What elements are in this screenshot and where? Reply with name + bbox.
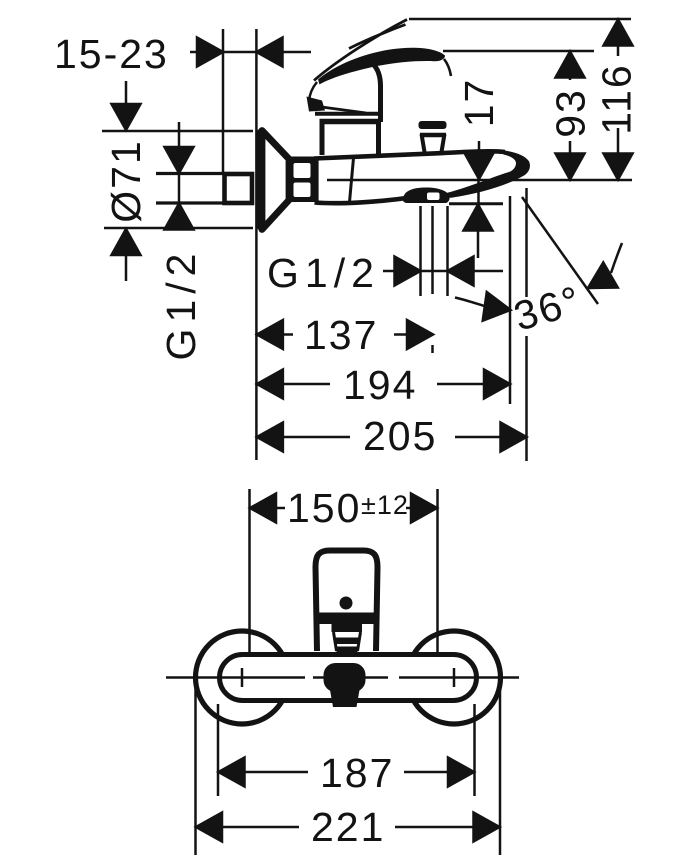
extension line spout outlet x=510 — [509, 196, 512, 404]
outlet G1/2 left extension line — [419, 206, 422, 296]
dim 137 left tail — [281, 333, 293, 336]
handle dot — [340, 597, 353, 610]
dim 15-23 left arrow (points right, tip at wall-back line) — [197, 38, 223, 67]
spout outlet plane stub line — [449, 202, 503, 205]
diverter blob skirt (front) — [330, 690, 360, 707]
escutcheon neck window lower — [294, 183, 311, 198]
handle outline (front) — [316, 551, 378, 652]
dim 187 left arrow (points left) — [219, 758, 245, 787]
36 degree left leader arc — [455, 298, 486, 307]
svg-text:G1/2: G1/2 — [158, 248, 204, 361]
svg-text:205: 205 — [363, 413, 437, 459]
lever right tip stub — [444, 59, 451, 76]
dim 221 left tail — [220, 826, 299, 829]
neck stack bar 2 — [334, 638, 360, 645]
dim 150 right arrow (points right) — [411, 494, 437, 523]
pipe-stub bottom line to the left — [156, 201, 224, 204]
body left edge — [314, 157, 318, 202]
dim 15-23 right tail — [280, 51, 311, 54]
svg-text:150: 150 — [287, 485, 361, 531]
dim G1/2 (outlet) line between extensions — [421, 270, 448, 273]
lever bottom edge above cap — [315, 112, 380, 116]
centre tick right — [453, 668, 456, 687]
lever blade lower edge — [349, 25, 406, 49]
svg-text:93: 93 — [548, 88, 594, 138]
dim 221 right tail — [395, 826, 476, 829]
top extent line (lever tip level) — [409, 18, 631, 21]
dim 205 left arrow (points left, tip at wall) — [257, 423, 283, 452]
dim 93 top arrow (points up) — [556, 52, 585, 78]
lever grip swoosh (black) — [318, 48, 445, 85]
36 degree reference diagonal — [522, 197, 598, 304]
dim 221 right extension line — [499, 681, 502, 855]
dim 17 upper arrow (points down, tip at centre line) — [465, 153, 494, 179]
lever end extent line — [443, 50, 594, 53]
dim O71 bottom extent line — [104, 227, 253, 230]
dim G1/2 (outlet) left tail — [383, 270, 397, 273]
dim O71 bottom arrow (points up) — [112, 229, 141, 255]
mixer body outline (white fill) — [315, 153, 463, 203]
dim G1/2 (outlet) right arrow (points left) — [448, 257, 474, 286]
dim 221 left arrow (points left) — [196, 813, 222, 842]
pipe-stub top line to the left — [156, 172, 224, 175]
dim 17 through line — [477, 180, 480, 204]
36 degree right arrowhead (points down-left at diagonal) — [581, 262, 618, 300]
dim G1/2 (pipe) top arrow (points down) — [165, 147, 194, 173]
dim 15-23 right arrow (points left, tip at wall line) — [257, 38, 283, 67]
centre line horizontal — [166, 676, 519, 679]
dim 150 left extension line — [248, 489, 251, 678]
diverter knob cap (top view) — [419, 121, 447, 129]
centre tick left — [241, 668, 244, 687]
cartridge cap top edge — [320, 119, 381, 125]
dim 17 lower tail — [477, 228, 480, 258]
body seam line — [350, 158, 354, 202]
dim O71 top arrow (points down) — [112, 104, 141, 130]
neck stack bar 3 — [337, 647, 358, 653]
lever rear lower edge — [309, 82, 317, 101]
dim 116 top arrow (points up) — [604, 20, 633, 46]
neck stack left side — [334, 632, 337, 651]
dim 15-23 line left tail — [190, 51, 200, 54]
dim 137 left arrow (points left, tip at wall) — [257, 320, 283, 349]
dim 137 right arrow (points right) — [407, 320, 433, 349]
svg-text:G1/2: G1/2 — [267, 250, 380, 296]
svg-text:221: 221 — [311, 804, 385, 850]
svg-text:116: 116 — [594, 63, 640, 134]
escutcheon cone (white fill, thick outline) — [262, 131, 289, 230]
dim 194 left tail — [281, 383, 330, 386]
dim 187 left extension line — [217, 704, 220, 796]
dim 205 right arrow (points right) — [501, 423, 527, 452]
right escutcheon circle — [408, 631, 501, 724]
dim O71 top arrow tail — [125, 81, 128, 110]
dim 137 right tail — [394, 333, 409, 336]
diverter knob body top edge — [420, 133, 446, 138]
dim 93 bottom tail — [569, 141, 572, 156]
svg-text:±12: ±12 — [361, 490, 409, 520]
dim 15-23 line between extensions — [223, 51, 256, 54]
body bottom edge — [315, 198, 411, 204]
dim 150 right tail — [406, 507, 413, 510]
dim O71 bottom arrow tail — [125, 253, 128, 281]
outlet centre extension line — [431, 206, 434, 353]
dim 93 top tail — [569, 75, 572, 80]
dim 17 upper tail — [478, 141, 481, 158]
dim G1/2 (outlet) right tail — [472, 270, 504, 273]
escutcheon neck window upper — [294, 163, 311, 178]
36 degree right leader arc — [611, 243, 622, 273]
body capsule — [220, 655, 477, 701]
body top edge — [314, 151, 505, 158]
36 degree left arrowhead (points right at extension line) — [483, 292, 513, 324]
diverter blob dome (front) — [324, 663, 366, 692]
extension line spout tip x=526.5 — [525, 188, 528, 461]
dim 116 top tail — [617, 43, 620, 56]
dim 205 left tail — [281, 436, 350, 439]
svg-text:187: 187 — [320, 750, 394, 796]
svg-text:137: 137 — [304, 312, 378, 358]
dim 116 bottom tail — [617, 128, 620, 156]
lever blade upper edge — [314, 20, 407, 81]
dim 187 right tail — [404, 771, 450, 774]
handle bottom band — [314, 613, 379, 625]
neck stack bar 1 — [332, 624, 363, 632]
dim G1/2 (pipe) bottom arrow (points up) — [165, 204, 194, 230]
dim 187 right extension line — [473, 704, 476, 796]
dim 93 bottom arrow (points down, tip at centre line) — [556, 154, 585, 180]
dim 150 left tail — [274, 507, 285, 510]
bottom outlet nub window — [427, 193, 440, 201]
bottom outlet nub (black) — [403, 187, 450, 203]
neck stack right side — [358, 632, 361, 651]
outlet G1/2 right extension line — [446, 206, 449, 296]
diverter knob right side — [442, 134, 445, 152]
escutcheon neck block (black) — [288, 157, 318, 203]
svg-text:194: 194 — [343, 362, 417, 408]
dim 187 left tail — [243, 771, 309, 774]
escutcheon wall flange bar — [257, 133, 267, 226]
dim 116 bottom arrow (points down, tip at centre line) — [604, 154, 633, 180]
cartridge cap left edge — [320, 122, 325, 155]
svg-text:17: 17 — [456, 78, 502, 128]
cartridge cap right edge — [376, 122, 381, 155]
extension / wall line x=256.4 — [255, 29, 258, 460]
left escutcheon circle — [196, 631, 289, 724]
lever inner diagonal — [318, 107, 366, 114]
svg-text:Ø71: Ø71 — [103, 139, 149, 223]
dim 205 right tail — [455, 436, 502, 439]
svg-text:15-23: 15-23 — [54, 31, 169, 77]
dim 150 left arrow (points left) — [250, 494, 276, 523]
dim 194 right tail — [437, 383, 486, 386]
spout beak tip and underside swoosh (black) — [444, 150, 530, 197]
dim 150 right extension line — [436, 489, 439, 678]
dim G1/2 (outlet) left arrow (points right) — [395, 257, 421, 286]
dim G1/2 (pipe) top arrow tail — [178, 122, 181, 152]
dim 221 right arrow (points right) — [474, 813, 500, 842]
dim O71 top extent line — [102, 130, 253, 133]
lever rear hook (black) — [307, 97, 326, 112]
lever neck right edge — [373, 64, 381, 122]
wall pipe stub square — [225, 174, 253, 203]
body centre line — [327, 179, 632, 182]
diverter knob left side — [422, 134, 425, 152]
dim 194 right arrow (points right) — [484, 370, 510, 399]
dim 187 right arrow (points right) — [448, 758, 474, 787]
dim 17 lower arrow (points up, tip at outlet plane) — [464, 205, 493, 231]
dim G1/2 (pipe) through line — [178, 174, 181, 203]
dim 221 left extension line — [194, 681, 197, 855]
dim 194 left arrow (points left, tip at wall) — [257, 370, 283, 399]
extension line wall-back x=223 — [222, 29, 225, 173]
